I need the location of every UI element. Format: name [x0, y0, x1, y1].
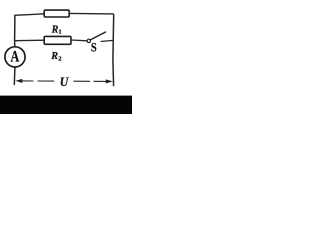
- switch S pivot circle: [87, 39, 90, 42]
- wire: top branch left segment (corner to R1 box): [14, 14, 44, 16]
- svg-text:S: S: [91, 42, 97, 55]
- black censor bar: [0, 96, 132, 114]
- wire: left rail (top corner down to ammeter top): [14, 15, 16, 47]
- wire: left terminal (ammeter bottom down): [13, 67, 16, 85]
- wire: switch fixed contact to right rail: [101, 40, 114, 41]
- resistor R2 (middle box): [44, 36, 71, 44]
- U dimension line left arrowhead: [15, 79, 22, 83]
- U dimension line right arrowhead: [106, 79, 113, 83]
- svg-text:A: A: [11, 49, 20, 66]
- background: [0, 0, 132, 117]
- svg-text:U: U: [60, 75, 70, 89]
- U dimension line left dashes: [22, 80, 55, 82]
- wire: top branch right segment (R1 box to top-right corner): [69, 12, 113, 15]
- U dimension line right dashes: [74, 80, 107, 82]
- svg-text:1: 1: [58, 29, 61, 36]
- wire: right rail: [112, 14, 115, 86]
- svg-text:R: R: [51, 24, 59, 35]
- resistor R1 (top box): [44, 10, 69, 17]
- wire: middle branch left segment (left rail to R2 box): [15, 39, 45, 42]
- ammeter A (circle): [5, 47, 25, 67]
- switch S blade: [90, 32, 106, 40]
- wire: middle branch to switch: [71, 39, 87, 42]
- svg-text:R: R: [50, 51, 58, 62]
